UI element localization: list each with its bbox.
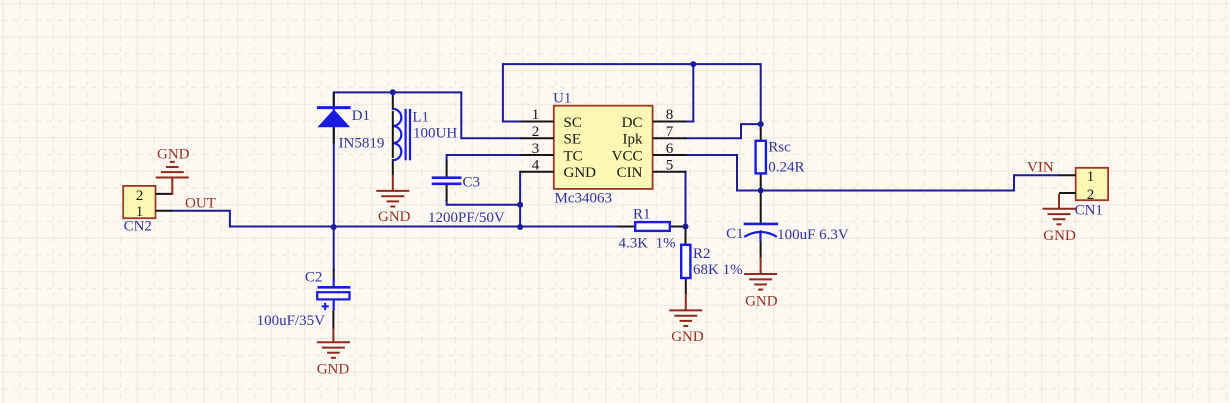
capacitor C3 plates [432, 178, 462, 184]
svg-text:SC: SC [564, 115, 582, 131]
svg-text:SE: SE [564, 132, 582, 148]
svg-text:2: 2 [1087, 187, 1095, 203]
svg-text:L1: L1 [412, 110, 429, 126]
pin R2 top pin [685, 227, 687, 245]
svg-text:DC: DC [622, 115, 643, 131]
capacitor C1 curved plate [744, 232, 777, 237]
svg-text:0.24R: 0.24R [768, 160, 804, 176]
svg-text:GND: GND [671, 329, 704, 345]
svg-text:Rsc: Rsc [768, 140, 791, 156]
diode D1 cathode bar [317, 106, 351, 109]
pin U1 pin 2 [520, 137, 554, 139]
svg-text:8: 8 [666, 107, 674, 123]
svg-text:100UH: 100UH [413, 126, 457, 142]
resistor R1 body [635, 222, 670, 231]
wire VIN rail [761, 175, 1060, 190]
svg-text:C2: C2 [305, 270, 323, 286]
ground CN1 GND [1043, 194, 1076, 224]
ground R2 GND [669, 294, 702, 327]
junction Rsc top / pin7 [758, 121, 764, 127]
svg-text:R1: R1 [633, 206, 651, 222]
wire pin5 drop [685, 171, 687, 227]
svg-text:1: 1 [1087, 169, 1095, 185]
pin R2 bottom pin [685, 278, 687, 295]
pin Rsc bottom pin [760, 173, 762, 190]
pin C3 bottom pin [446, 185, 448, 201]
svg-text:2: 2 [136, 188, 144, 204]
diode D1 triangle [317, 109, 350, 127]
pin Rsc top pin [760, 128, 762, 141]
svg-text:GND: GND [564, 165, 597, 181]
wire pin7 to Rsc top [685, 124, 762, 138]
junction C3 bottom / pin4 [517, 202, 523, 208]
wire C3 bottom link [447, 200, 521, 205]
junction Rsc bottom / VIN [758, 188, 764, 194]
wire pin1 riser [503, 63, 521, 121]
svg-text:100uF/35V: 100uF/35V [257, 313, 326, 329]
wire top feedback rail [503, 63, 761, 65]
svg-text:VIN: VIN [1027, 160, 1054, 176]
pin R1 right pin [668, 226, 687, 228]
pin C1 bottom pin [760, 242, 762, 259]
svg-text:4: 4 [532, 158, 540, 174]
svg-text:CN2: CN2 [124, 219, 152, 235]
svg-text:R2: R2 [693, 246, 711, 262]
ground L1 GND [376, 175, 409, 207]
pin L1 bottom pin [392, 159, 394, 176]
svg-text:GND: GND [378, 209, 411, 225]
wire C2 drop [333, 227, 335, 272]
svg-text:IN5819: IN5819 [339, 136, 385, 152]
svg-text:4.3K 1%: 4.3K 1% [619, 235, 676, 251]
pin C2 bottom pin [332, 310, 334, 329]
resistor R2 body [681, 245, 690, 278]
svg-text:1: 1 [532, 107, 540, 123]
svg-text:68K 1%: 68K 1% [693, 262, 743, 278]
resistor Rsc body [756, 141, 766, 174]
svg-text:GND: GND [1043, 228, 1076, 244]
svg-text:5: 5 [666, 158, 674, 174]
svg-text:3: 3 [532, 141, 540, 157]
svg-text:100uF 6.3V: 100uF 6.3V [777, 227, 849, 243]
svg-text:7: 7 [666, 124, 674, 140]
pin CN1 pin 1 [1059, 174, 1076, 176]
svg-text:C3: C3 [463, 174, 481, 190]
op-amp U1 Mc34063 body [554, 106, 653, 189]
ground C1 GND [744, 257, 777, 289]
svg-text:Mc34063: Mc34063 [555, 191, 613, 207]
pin L1 top pin [392, 91, 394, 110]
svg-text:1200PF/50V: 1200PF/50V [428, 210, 505, 226]
pin D1 anode pin [333, 127, 335, 143]
svg-text:GND: GND [157, 147, 190, 163]
svg-text:2: 2 [532, 124, 540, 140]
wire D1 branch [333, 91, 335, 226]
pin U1 pin 8 [653, 121, 687, 123]
wire OUT rail [230, 226, 687, 228]
pin R1 left pin [617, 226, 636, 228]
svg-text:CIN: CIN [617, 165, 643, 181]
inductor L1 core lines [405, 109, 407, 160]
wire pin6 to Rsc bottom [685, 155, 762, 191]
junction OUT rail / D1-C2 [331, 224, 337, 230]
svg-text:Ipk: Ipk [623, 132, 643, 148]
wire CN2 out step [171, 211, 230, 228]
pin U1 pin 7 [653, 137, 687, 139]
ground C2 GND [317, 328, 350, 357]
connector CN1 body [1076, 168, 1108, 200]
pin U1 pin 1 [520, 121, 554, 123]
pin C1 top pin [760, 192, 762, 223]
pin U1 pin 4 [520, 171, 554, 173]
pin C3 top pin [446, 161, 448, 177]
svg-text:TC: TC [564, 148, 583, 164]
wire Rsc top drop [760, 63, 762, 129]
capacitor C2 bottom plate [317, 292, 349, 299]
svg-text:GND: GND [317, 362, 350, 378]
svg-text:VCC: VCC [612, 148, 643, 164]
capacitor C1 top plate [744, 223, 779, 226]
svg-text:GND: GND [745, 294, 778, 310]
pin D1 cathode pin [333, 92, 335, 107]
wire pin4 drop [519, 171, 521, 228]
junction OUT rail / R2 / pin5 [683, 224, 689, 230]
ground CN2 GND (inverted) [156, 162, 189, 195]
wire switch node top [334, 92, 521, 138]
svg-text:U1: U1 [553, 91, 571, 107]
svg-text:CN1: CN1 [1075, 203, 1103, 219]
pin U1 pin 5 [653, 171, 687, 173]
junction switch node / L1 top [390, 89, 396, 95]
svg-text:C1: C1 [726, 226, 744, 242]
C2 plus sign [322, 303, 329, 310]
pin U1 pin 3 [520, 154, 554, 156]
pin CN2 pin 2 [156, 193, 173, 195]
connector CN2 body [123, 186, 155, 218]
wire pin8 riser [685, 63, 693, 121]
junction top rail / pin8 [690, 61, 696, 67]
pin U1 pin 6 [653, 154, 687, 156]
svg-text:D1: D1 [352, 108, 370, 124]
capacitor C2 top plate [318, 286, 351, 289]
junction OUT rail / pin4 [517, 224, 523, 230]
inductor L1 coil [393, 109, 402, 160]
pin CN2 pin 1 [156, 210, 173, 212]
svg-text:6: 6 [666, 141, 674, 157]
wire pin3 to C3 [447, 155, 521, 162]
pin C2 top pin [333, 269, 335, 278]
svg-text:OUT: OUT [185, 196, 216, 212]
pin CN1 pin 2 [1059, 192, 1076, 194]
